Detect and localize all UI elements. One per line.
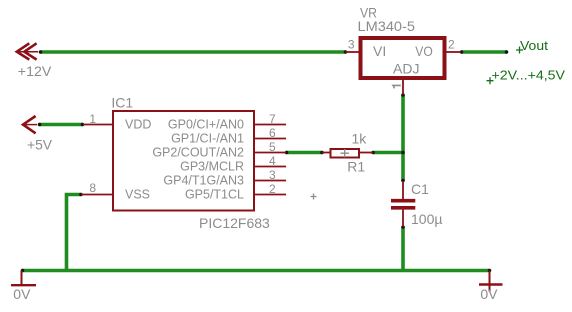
svg-text:+12V: +12V bbox=[18, 63, 52, 79]
svg-text:GP1/CI-/AN1: GP1/CI-/AN1 bbox=[171, 132, 244, 146]
svg-text:100µ: 100µ bbox=[411, 211, 442, 227]
svg-text:+5V: +5V bbox=[27, 136, 53, 152]
svg-text:8: 8 bbox=[89, 181, 96, 195]
svg-text:5: 5 bbox=[269, 140, 276, 154]
svg-text:LM340-5: LM340-5 bbox=[358, 18, 416, 34]
svg-text:7: 7 bbox=[269, 112, 276, 126]
svg-text:C1: C1 bbox=[411, 181, 429, 197]
svg-text:2: 2 bbox=[448, 37, 455, 51]
svg-text:PIC12F683: PIC12F683 bbox=[199, 215, 270, 231]
svg-text:3: 3 bbox=[348, 37, 355, 51]
svg-text:1: 1 bbox=[89, 112, 96, 126]
svg-text:VO: VO bbox=[415, 43, 433, 59]
svg-text:VSS: VSS bbox=[125, 188, 150, 202]
svg-text:+2V...+4,5V: +2V...+4,5V bbox=[492, 68, 566, 83]
svg-text:GP5/T1CL: GP5/T1CL bbox=[185, 188, 244, 202]
svg-text:Vout: Vout bbox=[520, 39, 549, 53]
svg-text:GP2/COUT/AN2: GP2/COUT/AN2 bbox=[152, 146, 244, 160]
svg-text:GP3/MCLR: GP3/MCLR bbox=[180, 160, 244, 174]
svg-text:GP4/T1G/AN3: GP4/T1G/AN3 bbox=[163, 174, 244, 188]
svg-text:6: 6 bbox=[269, 126, 276, 140]
svg-text:0V: 0V bbox=[13, 286, 31, 302]
svg-text:VI: VI bbox=[373, 43, 386, 59]
svg-text:4: 4 bbox=[269, 154, 276, 168]
svg-text:IC1: IC1 bbox=[111, 95, 133, 111]
svg-text:1k: 1k bbox=[352, 131, 368, 147]
svg-text:R1: R1 bbox=[347, 159, 365, 175]
svg-text:3: 3 bbox=[269, 168, 276, 182]
svg-text:GP0/CI+/AN0: GP0/CI+/AN0 bbox=[168, 118, 244, 132]
svg-text:VDD: VDD bbox=[125, 118, 151, 132]
svg-text:2: 2 bbox=[269, 182, 276, 196]
svg-text:ADJ: ADJ bbox=[393, 61, 419, 77]
svg-text:0V: 0V bbox=[480, 286, 498, 302]
